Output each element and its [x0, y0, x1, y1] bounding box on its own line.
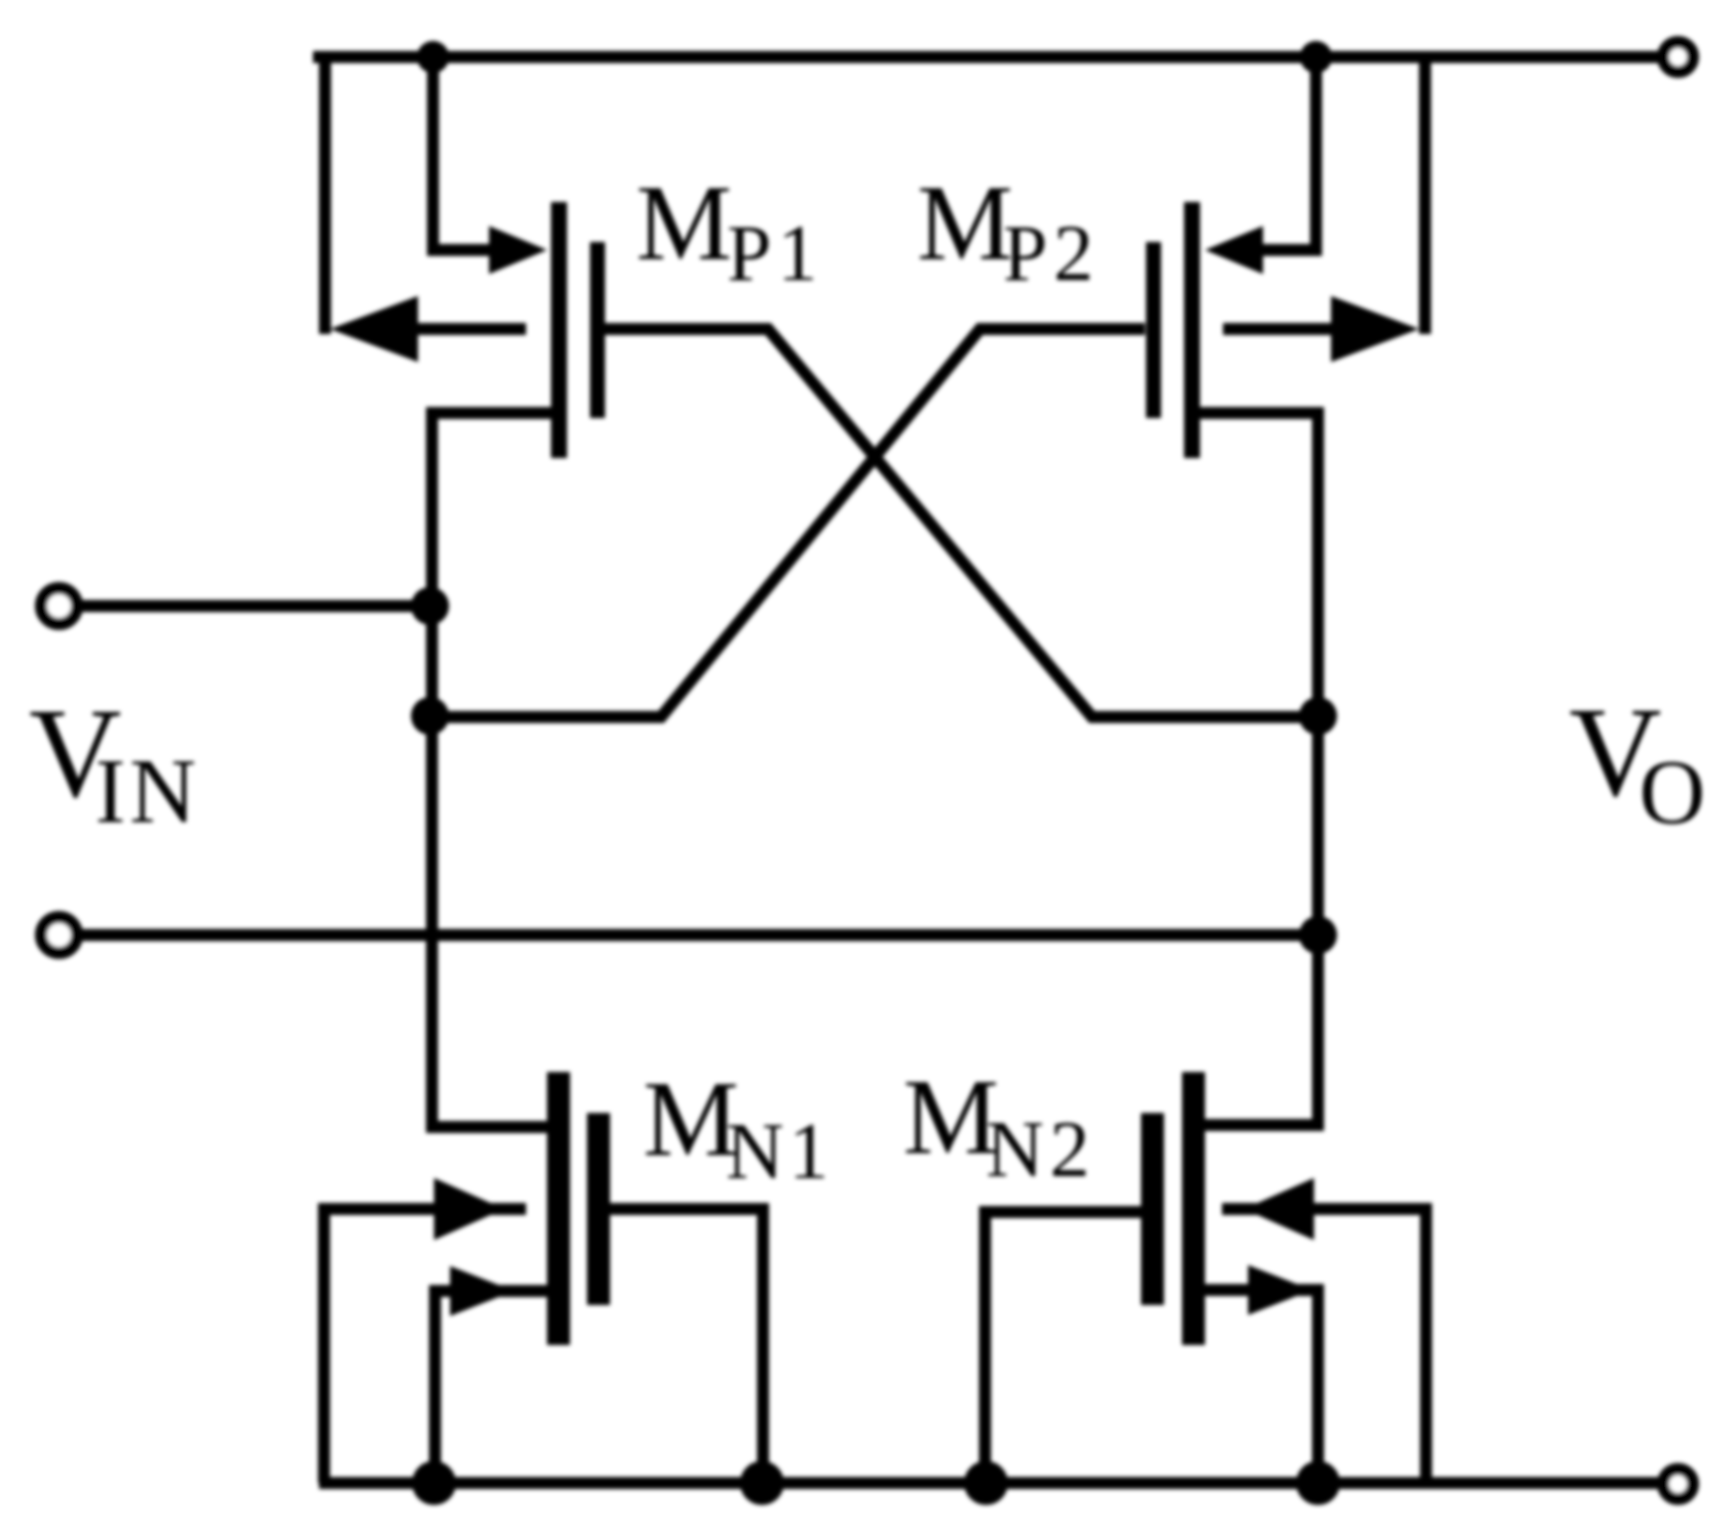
svg-text:M: M — [643, 1060, 739, 1179]
svg-text:IN: IN — [95, 740, 200, 842]
svg-text:M: M — [903, 1058, 999, 1177]
svg-text:O: O — [1639, 741, 1705, 843]
svg-text:M: M — [636, 164, 732, 283]
svg-text:P1: P1 — [727, 210, 824, 298]
svg-text:N2: N2 — [986, 1106, 1096, 1194]
svg-text:P2: P2 — [1003, 210, 1100, 298]
svg-text:N1: N1 — [726, 1108, 834, 1196]
svg-text:M: M — [917, 164, 1013, 283]
